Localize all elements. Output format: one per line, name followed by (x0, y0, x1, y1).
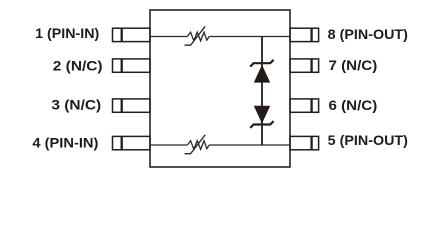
svg-text:7 (N/C): 7 (N/C) (329, 57, 378, 73)
svg-text:2 (N/C): 2 (N/C) (53, 57, 103, 73)
svg-text:5 (PIN-OUT): 5 (PIN-OUT) (328, 132, 408, 148)
svg-text:1 (PIN-IN): 1 (PIN-IN) (35, 25, 99, 41)
svg-text:3 (N/C): 3 (N/C) (51, 97, 101, 113)
svg-text:4 (PIN-IN): 4 (PIN-IN) (32, 134, 98, 150)
svg-text:8 (PIN-OUT): 8 (PIN-OUT) (328, 26, 408, 42)
svg-text:6 (N/C): 6 (N/C) (329, 97, 378, 113)
